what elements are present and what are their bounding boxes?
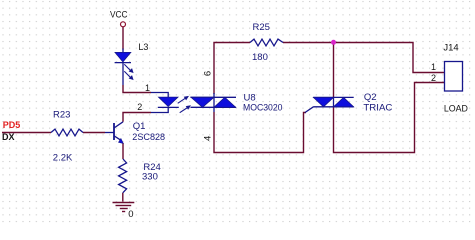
svg-text:330: 330: [142, 172, 158, 183]
svg-text:R23: R23: [53, 109, 70, 120]
svg-text:PD5: PD5: [3, 120, 21, 130]
svg-text:2.2K: 2.2K: [53, 152, 73, 163]
svg-text:1: 1: [145, 83, 150, 93]
svg-text:TRIAC: TRIAC: [363, 102, 392, 113]
svg-text:4: 4: [203, 136, 214, 141]
svg-text:L3: L3: [138, 42, 148, 52]
svg-text:Q1: Q1: [133, 121, 146, 132]
svg-text:2SC828: 2SC828: [132, 132, 165, 143]
svg-text:R25: R25: [253, 22, 270, 33]
svg-text:MOC3020: MOC3020: [243, 103, 283, 114]
svg-text:J14: J14: [443, 42, 458, 53]
svg-text:6: 6: [203, 71, 214, 76]
svg-text:2: 2: [431, 73, 436, 83]
svg-text:0: 0: [128, 209, 133, 220]
svg-text:180: 180: [252, 52, 268, 63]
svg-text:VCC: VCC: [110, 10, 128, 20]
svg-text:LOAD: LOAD: [444, 104, 468, 115]
svg-text:1: 1: [431, 62, 436, 72]
svg-text:DX: DX: [2, 132, 15, 142]
svg-text:2: 2: [137, 102, 142, 112]
